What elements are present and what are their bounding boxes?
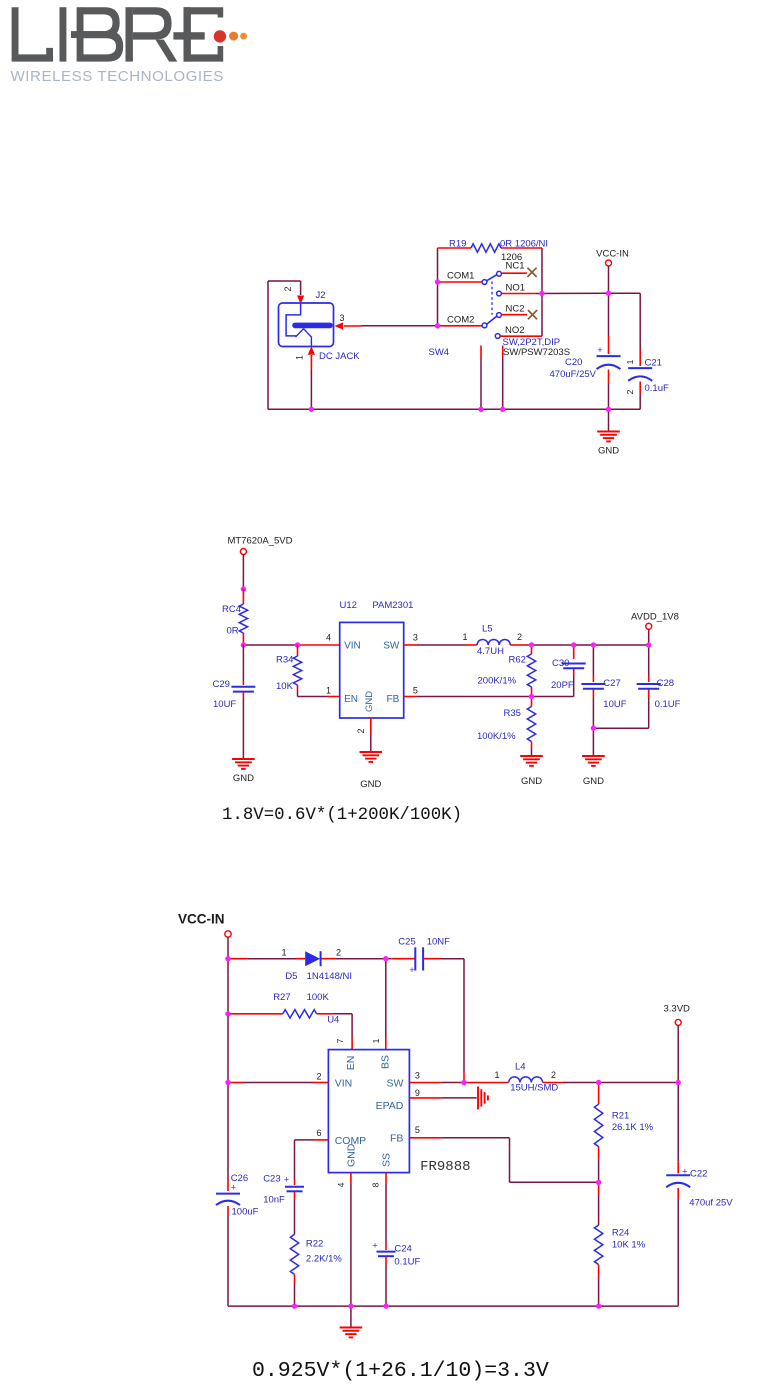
svg-text:0.925V*(1+26.1/10)=3.3V: 0.925V*(1+26.1/10)=3.3V [252,1359,549,1382]
svg-text:26.1K 1%: 26.1K 1% [612,1122,654,1133]
svg-text:+: + [284,1175,289,1185]
svg-text:R21: R21 [612,1111,629,1122]
svg-text:0.1UF: 0.1UF [394,1257,420,1268]
svg-text:1: 1 [295,355,305,360]
svg-text:1.8V=0.6V*(1+200K/100K): 1.8V=0.6V*(1+200K/100K) [222,806,462,825]
svg-text:RC4: RC4 [222,604,241,615]
svg-text:2: 2 [336,948,341,958]
svg-text:D5: D5 [285,971,297,982]
svg-text:20PF: 20PF [551,680,574,691]
svg-text:COM1: COM1 [447,271,474,282]
svg-text:470uF/25V: 470uF/25V [550,369,597,380]
svg-text:8: 8 [371,1182,381,1187]
svg-text:C24: C24 [394,1244,411,1255]
svg-text:GND: GND [360,779,381,790]
svg-text:L5: L5 [482,624,493,635]
svg-text:NC2: NC2 [506,304,525,315]
svg-text:3: 3 [413,633,418,643]
svg-text:R24: R24 [612,1228,629,1239]
svg-text:7: 7 [335,1038,345,1043]
svg-text:2: 2 [517,632,522,642]
svg-text:NC1: NC1 [506,261,525,272]
svg-text:R62: R62 [509,655,526,666]
svg-text:2: 2 [625,389,635,394]
svg-text:4: 4 [326,633,331,643]
svg-text:C22: C22 [690,1169,707,1180]
svg-text:L4: L4 [515,1062,526,1073]
svg-text:C29: C29 [213,679,230,690]
svg-text:BS: BS [380,1055,392,1069]
svg-text:2: 2 [316,1072,321,1082]
svg-text:5: 5 [415,1125,420,1135]
svg-text:4.7UH: 4.7UH [477,646,504,657]
svg-text:U12: U12 [340,600,357,611]
svg-text:C27: C27 [603,678,620,689]
svg-text:VCC-IN: VCC-IN [178,912,225,927]
svg-text:15UH/SMD: 15UH/SMD [510,1083,558,1094]
svg-text:10UF: 10UF [603,699,626,710]
svg-text:SW4: SW4 [429,347,450,358]
svg-text:10K 1%: 10K 1% [612,1240,646,1251]
svg-text:10nF: 10nF [263,1195,285,1206]
svg-text:AVDD_1V8: AVDD_1V8 [631,612,679,623]
svg-text:C20: C20 [565,357,582,368]
svg-text:+: + [372,1241,377,1251]
svg-text:GND: GND [583,776,604,787]
svg-text:VIN: VIN [344,641,361,652]
svg-text:2: 2 [356,728,366,733]
svg-text:MT7620A_5VD: MT7620A_5VD [228,536,293,547]
svg-text:2: 2 [283,286,293,291]
svg-text:GND: GND [598,446,619,457]
svg-text:0.1uF: 0.1uF [645,383,669,394]
svg-text:C23: C23 [263,1174,280,1185]
svg-text:10K: 10K [276,681,294,692]
svg-text:100uF: 100uF [232,1207,259,1218]
svg-text:EN: EN [345,1056,357,1071]
svg-text:5: 5 [413,686,418,696]
svg-text:100K: 100K [307,992,330,1003]
svg-text:4: 4 [336,1182,346,1187]
svg-text:1: 1 [371,1038,381,1043]
svg-text:NO1: NO1 [506,282,526,293]
svg-text:J2: J2 [316,290,326,301]
svg-text:1: 1 [494,1070,499,1080]
svg-text:R35: R35 [504,708,521,719]
svg-text:FB: FB [387,694,400,705]
svg-text:U4: U4 [327,1015,339,1026]
svg-text:+: + [682,1167,687,1177]
svg-text:SW: SW [386,1078,403,1090]
svg-text:GND: GND [346,1143,358,1167]
svg-text:GND: GND [364,691,375,712]
svg-text:C28: C28 [657,678,674,689]
svg-text:EPAD: EPAD [376,1100,404,1112]
svg-text:R19: R19 [449,239,466,250]
svg-text:1: 1 [281,948,286,958]
svg-text:1N4148/NI: 1N4148/NI [307,971,352,982]
svg-text:R22: R22 [306,1239,323,1250]
svg-text:+: + [231,1183,236,1193]
svg-text:6: 6 [316,1128,321,1138]
svg-text:3: 3 [340,313,345,323]
svg-text:R34: R34 [276,655,293,666]
svg-text:3: 3 [415,1071,420,1081]
svg-text:C25: C25 [398,937,415,948]
svg-text:SW/PSW7203S: SW/PSW7203S [503,347,570,358]
svg-text:1: 1 [462,632,467,642]
svg-text:FB: FB [390,1133,403,1145]
svg-text:FR9888: FR9888 [420,1159,470,1175]
svg-text:PAM2301: PAM2301 [372,600,413,611]
svg-text:WIRELESS TECHNOLOGIES: WIRELESS TECHNOLOGIES [11,68,224,85]
svg-text:10NF: 10NF [427,937,450,948]
svg-text:200K/1%: 200K/1% [478,676,517,687]
svg-text:C30: C30 [552,658,569,669]
svg-text:EN: EN [344,694,358,705]
svg-text:0.1UF: 0.1UF [655,699,681,710]
svg-text:SW: SW [383,641,400,652]
svg-text:2.2K/1%: 2.2K/1% [306,1254,342,1265]
svg-text:0R 1206/NI: 0R 1206/NI [500,239,548,250]
svg-text:COM2: COM2 [447,314,474,325]
svg-text:VCC-IN: VCC-IN [596,249,629,260]
svg-text:1: 1 [326,686,331,696]
svg-text:100K/1%: 100K/1% [477,731,516,742]
svg-text:3.3VD: 3.3VD [664,1004,691,1015]
svg-text:+: + [409,965,414,975]
svg-text:10UF: 10UF [213,699,236,710]
svg-text:NO2: NO2 [505,325,525,336]
svg-text:+: + [597,345,602,355]
svg-text:0R: 0R [227,626,239,637]
svg-text:C21: C21 [645,358,662,369]
svg-text:GND: GND [521,776,542,787]
svg-text:R27: R27 [273,992,290,1003]
svg-text:9: 9 [415,1088,420,1098]
svg-text:DC JACK: DC JACK [319,351,360,362]
svg-text:GND: GND [233,773,254,784]
svg-text:1: 1 [625,359,635,364]
svg-text:2: 2 [551,1070,556,1080]
svg-text:470uf 25V: 470uf 25V [689,1198,733,1209]
svg-text:SS: SS [381,1153,393,1167]
svg-text:VIN: VIN [335,1078,353,1090]
